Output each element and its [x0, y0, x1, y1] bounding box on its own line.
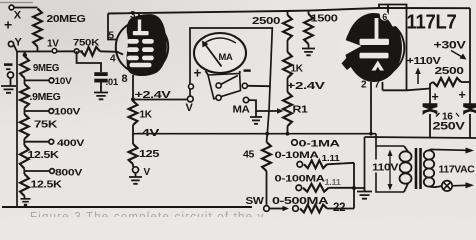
ground under .01 cap: [94, 93, 108, 100]
transformer T1 primary frame: [376, 146, 404, 192]
terminal MA probe: [233, 97, 251, 115]
tube V1 grid bars: [127, 39, 154, 60]
terminal 400V tap: [24, 138, 85, 149]
switch contact a: [216, 83, 221, 88]
wire 750K to pin 4: [100, 51, 123, 54]
resistor 750K: [73, 38, 100, 56]
svg-text:.9MEG: .9MEG: [30, 92, 62, 103]
terminal Y: [8, 37, 22, 49]
wire left border drop: [16, 52, 18, 208]
terminal V probe: [186, 96, 194, 114]
resistor 9MEG: [20, 56, 59, 78]
capacitor C2 16uF first: [423, 103, 438, 137]
svg-text:V: V: [144, 167, 151, 178]
wire shunt row2 to bus: [327, 163, 354, 165]
pin 8 of V1: [122, 73, 134, 101]
pin 6 of V2: [380, 5, 389, 22]
tube V2 plate: [360, 18, 390, 45]
meter M1 scale arc: [203, 38, 236, 44]
svg-text:100V: 100V: [54, 107, 81, 118]
resistor 125 cathode: [129, 144, 160, 164]
wire ground rail drop: [364, 137, 366, 191]
wire +30V arrow: [451, 51, 467, 60]
label 2500 dropping value: [435, 66, 465, 77]
svg-text:250V: 250V: [433, 121, 466, 133]
wire top rail: [108, 8, 470, 14]
svg-text:1K: 1K: [291, 64, 304, 75]
ground under 0V: [129, 177, 142, 184]
transformer T1 secondary winding: [424, 150, 434, 186]
wire secondary bottom to lamp: [429, 186, 442, 187]
resistor shunt 22: [300, 202, 345, 214]
svg-text:2500: 2500: [252, 16, 281, 27]
resistor .9MEG: [20, 84, 61, 108]
tube V1 envelope: [116, 21, 168, 73]
contact 0-100MA: [296, 185, 302, 191]
label SW: [246, 195, 264, 207]
ground left common: [1, 86, 16, 93]
resistor 20MEG: [33, 9, 42, 52]
pin 7 of V2: [374, 80, 382, 91]
capacitor C3 16uF second: [463, 103, 476, 137]
svg-text:+: +: [194, 66, 202, 81]
meter M1 needle: [202, 41, 222, 67]
label figure caption fragment: [30, 212, 265, 224]
resistor 2500 dropping: [430, 78, 470, 89]
tube V1 body: [127, 14, 167, 76]
label 117VAC: [439, 165, 475, 176]
wire 1K to R1: [287, 78, 289, 92]
label +2.4V bleeder: [287, 80, 325, 92]
pin 4 of V1: [110, 54, 116, 65]
ground under 1500: [302, 49, 315, 56]
wire 9MEG to 10V tap: [24, 78, 26, 84]
label - meter terminal: [244, 69, 251, 71]
tube V2 cathode: [360, 53, 389, 71]
resistor 75K: [20, 114, 59, 139]
wire cap ground rail: [365, 137, 476, 138]
tube V1 plate: [133, 20, 149, 36]
resistor 2500 feed: [283, 11, 292, 52]
wire V1 grid box: [108, 14, 117, 40]
wire Y to divider rail: [14, 45, 84, 52]
svg-text:117L7: 117L7: [407, 11, 457, 34]
wire pin7 loop to B+ node: [383, 89, 431, 91]
svg-text:1.11: 1.11: [322, 153, 341, 163]
wire 125 to 0V: [132, 164, 134, 167]
label 0-500MA: [272, 196, 328, 207]
rheostat R1: [283, 92, 308, 126]
svg-text:MA: MA: [233, 104, 251, 116]
svg-text:+2.4V: +2.4V: [287, 80, 325, 92]
wire junction to cap .01: [77, 51, 101, 72]
svg-text:3: 3: [130, 10, 136, 21]
wire divider top lead: [23, 52, 27, 58]
terminal meter plus tap: [189, 84, 194, 89]
svg-text:.01: .01: [106, 77, 119, 88]
tube V2 body: [339, 12, 403, 83]
label 0-10MA: [275, 150, 320, 161]
label 16 value: [436, 112, 459, 123]
label 20MEG value: [47, 14, 87, 25]
label -4V node: [137, 128, 160, 139]
svg-text:SW: SW: [246, 195, 264, 207]
contact 0-500MA: [293, 206, 299, 212]
wire -4V rail to primary: [375, 134, 377, 146]
svg-text:5: 5: [109, 31, 115, 42]
wire shunt row4 to bus: [327, 208, 354, 210]
transformer T1 core: [416, 148, 421, 189]
svg-text:0-10MA: 0-10MA: [275, 150, 320, 161]
svg-text:7: 7: [374, 80, 380, 91]
svg-text:1K: 1K: [140, 110, 153, 121]
svg-text:6: 6: [382, 12, 387, 22]
resistor 1K bleeder: [283, 52, 304, 78]
wire lamp to 117VAC: [452, 182, 474, 188]
label 117L7 tube type: [407, 11, 457, 34]
resistor shunt 1.11: [304, 153, 340, 168]
wire -4V rail: [133, 133, 376, 135]
label plus cap1: [432, 90, 439, 104]
label +110V: [407, 55, 441, 67]
tube V1 cathode bar: [130, 63, 152, 68]
svg-text:R1: R1: [293, 105, 309, 116]
wire R1 to -4V rail: [286, 126, 290, 136]
wire cap1 top lead: [429, 89, 431, 105]
switch polarity body: [208, 74, 241, 99]
node cap junction: [74, 49, 79, 54]
resistor 12.5K lower: [20, 174, 63, 196]
svg-text:1500: 1500: [311, 14, 339, 25]
wire meter switch stubs: [206, 71, 240, 76]
label 110V primary: [371, 160, 399, 174]
label +2.4V cathode: [135, 89, 171, 101]
ground under MA wire: [250, 111, 262, 124]
svg-text:10V: 10V: [55, 76, 73, 87]
svg-text:X: X: [14, 10, 22, 22]
wire bus to ground: [354, 188, 365, 191]
svg-text:Figure 3 The complete circuit: Figure 3 The complete circuit of the v: [30, 212, 265, 218]
terminal 100V tap: [25, 107, 82, 118]
resistor 1500: [304, 11, 313, 48]
lamp pilot: [442, 181, 452, 191]
pin 3 of V1: [130, 10, 139, 21]
contact 0-1MA: [292, 139, 340, 150]
svg-text:12.5K: 12.5K: [31, 180, 63, 191]
svg-text:125: 125: [139, 149, 160, 160]
pin 5 of V1: [109, 31, 115, 42]
wire shunt row3 to bus: [329, 187, 355, 189]
tube V2 envelope: [346, 19, 405, 78]
wire MA terminal to R1 wiper: [249, 100, 284, 114]
wire 110V span arrow: [388, 150, 393, 191]
wire 12.5K to 800V tap: [23, 169, 25, 175]
svg-text:0-100MA: 0-100MA: [275, 174, 326, 185]
wire SW common: [266, 171, 268, 206]
resistor 1K cathode: [129, 101, 153, 125]
wire bottom figure border: [2, 206, 252, 208]
terminal 800V tap: [24, 168, 83, 179]
svg-text:+: +: [459, 88, 466, 102]
svg-text:117VAC: 117VAC: [439, 165, 475, 176]
wire .9MEG to 100V tap: [24, 108, 26, 114]
switch contact e: [242, 83, 270, 88]
wire secondary top to 117VAC: [429, 148, 474, 154]
svg-text:75K: 75K: [34, 120, 58, 131]
wire V2 plate box: [379, 5, 407, 91]
wire cap2 top lead: [469, 82, 471, 104]
svg-text:+: +: [4, 17, 12, 33]
svg-text:2: 2: [361, 80, 367, 91]
svg-text:Y: Y: [15, 37, 23, 49]
wire shunt right bus: [353, 163, 355, 209]
label 0-100MA: [275, 174, 326, 185]
label MA on meter: [219, 52, 234, 62]
svg-text:2500: 2500: [435, 66, 465, 77]
terminal X: [9, 5, 37, 21]
capacitor C1 .01: [94, 72, 107, 92]
ground main chassis: [357, 192, 372, 199]
wire V terminal to cathode node: [131, 98, 187, 102]
wire +110V arrow: [415, 68, 421, 85]
terminal SW wiper: [264, 206, 270, 212]
node bus-ground junction: [352, 186, 356, 190]
svg-text:110V: 110V: [372, 162, 398, 174]
svg-text:0-1MA: 0-1MA: [299, 139, 341, 150]
label 250V value: [433, 121, 466, 133]
svg-text:+: +: [432, 90, 439, 104]
svg-text:400V: 400V: [57, 138, 85, 149]
svg-text:0-500MA: 0-500MA: [272, 196, 328, 207]
wire SW wiper arrow: [269, 206, 289, 211]
wire 1K to -4V node: [132, 125, 134, 144]
wire right edge B+: [469, 8, 471, 82]
label 1500 value: [311, 14, 339, 25]
svg-text:+30V: +30V: [434, 40, 467, 52]
wire common to ground: [10, 78, 12, 86]
svg-text:20MEG: 20MEG: [47, 14, 87, 25]
ground divider bottom: [21, 199, 31, 208]
pin 2 of V2: [361, 80, 373, 136]
wire top-left border fragment: [0, 2, 33, 4]
contact 0-10MA: [297, 162, 303, 168]
svg-text:4: 4: [110, 54, 116, 65]
terminal 10V tap: [25, 76, 73, 87]
label .01 value: [106, 77, 119, 88]
wire meter loop: [190, 28, 272, 134]
resistor 45 swamping: [243, 134, 271, 171]
svg-text:12.5K: 12.5K: [28, 150, 60, 161]
wire 75K to 400V tap: [23, 139, 25, 145]
svg-text:9MEG: 9MEG: [33, 63, 59, 74]
meter M1 case: [194, 33, 246, 73]
svg-text:MA: MA: [219, 52, 234, 62]
node 45 junction: [265, 132, 269, 136]
wire 0V to ground: [135, 173, 137, 177]
label + meter terminal: [194, 66, 202, 81]
label +30V: [434, 40, 467, 52]
resistor 12.5K upper: [20, 145, 60, 169]
svg-text:750K: 750K: [73, 38, 100, 49]
svg-text:8: 8: [122, 73, 128, 85]
svg-text:1.11: 1.11: [325, 178, 342, 187]
terminal 0V: [133, 167, 151, 178]
label X plus polarity: [4, 17, 12, 33]
resistor shunt .111: [303, 178, 341, 192]
node 1V junction: [47, 39, 59, 54]
label minus polarity: [4, 63, 13, 70]
label 2500 value: [252, 16, 281, 27]
svg-text:1V: 1V: [47, 39, 59, 50]
switch contact c: [216, 95, 221, 100]
svg-text:V: V: [186, 102, 194, 114]
transformer T1 primary winding: [400, 146, 412, 192]
label plus cap2: [459, 88, 466, 102]
wire divider bottom lead: [24, 196, 26, 199]
terminal common: [8, 72, 14, 78]
svg-text:800V: 800V: [55, 168, 83, 179]
svg-text:45: 45: [243, 149, 255, 161]
